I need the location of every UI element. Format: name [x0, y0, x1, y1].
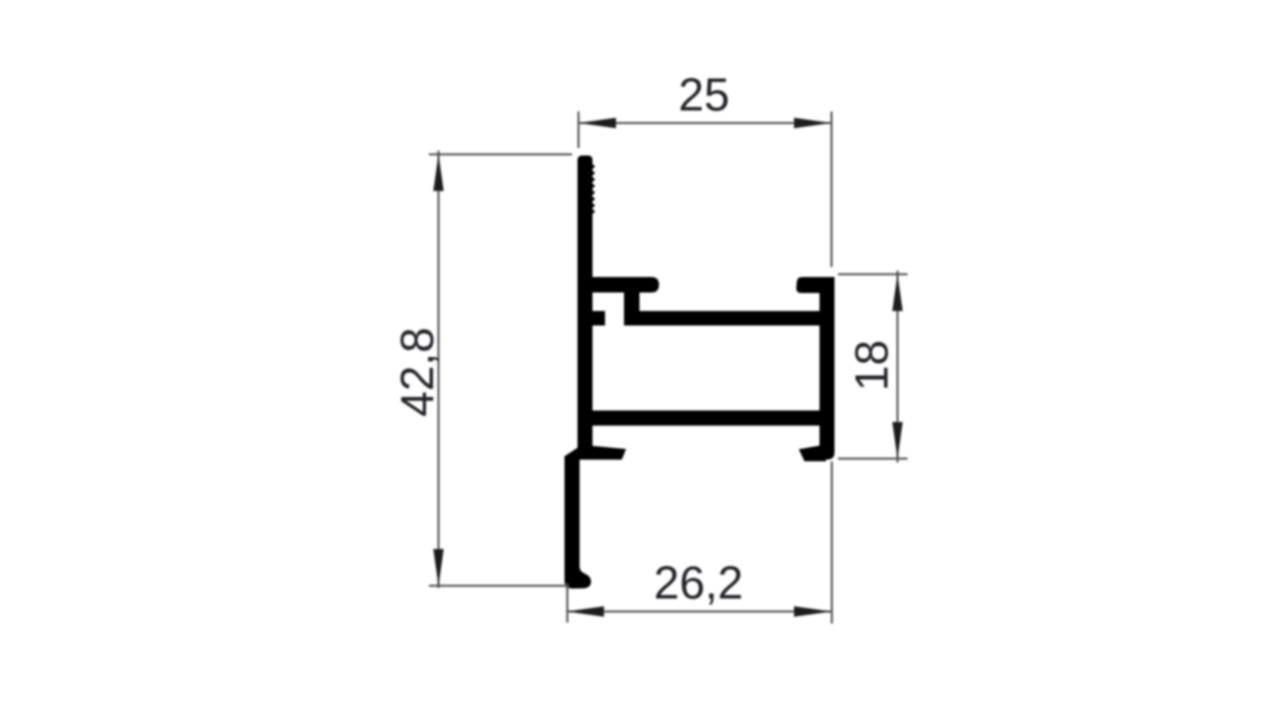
dimension 18: bottom arrow: [892, 422, 902, 459]
bottom-right hook: [799, 445, 826, 462]
dimension 42,8: top arrow: [433, 154, 443, 191]
dimension 26,2: left arrow: [567, 606, 604, 616]
small nub on bar: [593, 311, 606, 326]
dimension 25: dim line: [579, 122, 831, 124]
svg-text:42,8: 42,8: [391, 327, 443, 417]
dimension 18: dim line: [897, 271, 899, 463]
svg-text:18: 18: [846, 340, 898, 391]
dimension 26,2: dim line: [567, 611, 832, 613]
svg-text:25: 25: [678, 69, 729, 121]
left riser and long top wall of box: [624, 293, 820, 326]
dimension 25: left arrow: [579, 118, 616, 128]
dimension 18: bottom extension line: [838, 458, 908, 460]
right wall: [820, 277, 835, 460]
dimension 26,2: left extension line: [566, 584, 568, 623]
knurl bumps on bar right edge: [591, 165, 594, 213]
dimension 18: top extension line: [838, 273, 908, 275]
dimension 25: left extension line: [578, 112, 580, 149]
dimension 18: top arrow: [892, 274, 902, 311]
top-left arm of glazing channel: [592, 277, 659, 293]
dimension 42,8: dim line: [438, 151, 440, 589]
profile main vertical bar with jog, lower leg and foot: [565, 156, 627, 589]
svg-text:26,2: 26,2: [654, 557, 744, 609]
top-right stub: [796, 277, 834, 293]
dimension 42,8: top extension line: [429, 153, 572, 155]
dimension 42,8: bottom extension line: [429, 585, 566, 587]
dimension 26,2: right extension line: [831, 462, 833, 624]
dimension 25: right arrow: [794, 118, 831, 128]
dimension 25: right extension line: [831, 112, 833, 268]
dimension 26,2: right arrow: [794, 606, 831, 616]
dimension 42,8: bottom arrow: [433, 549, 443, 586]
bottom wall of box: [580, 411, 825, 426]
